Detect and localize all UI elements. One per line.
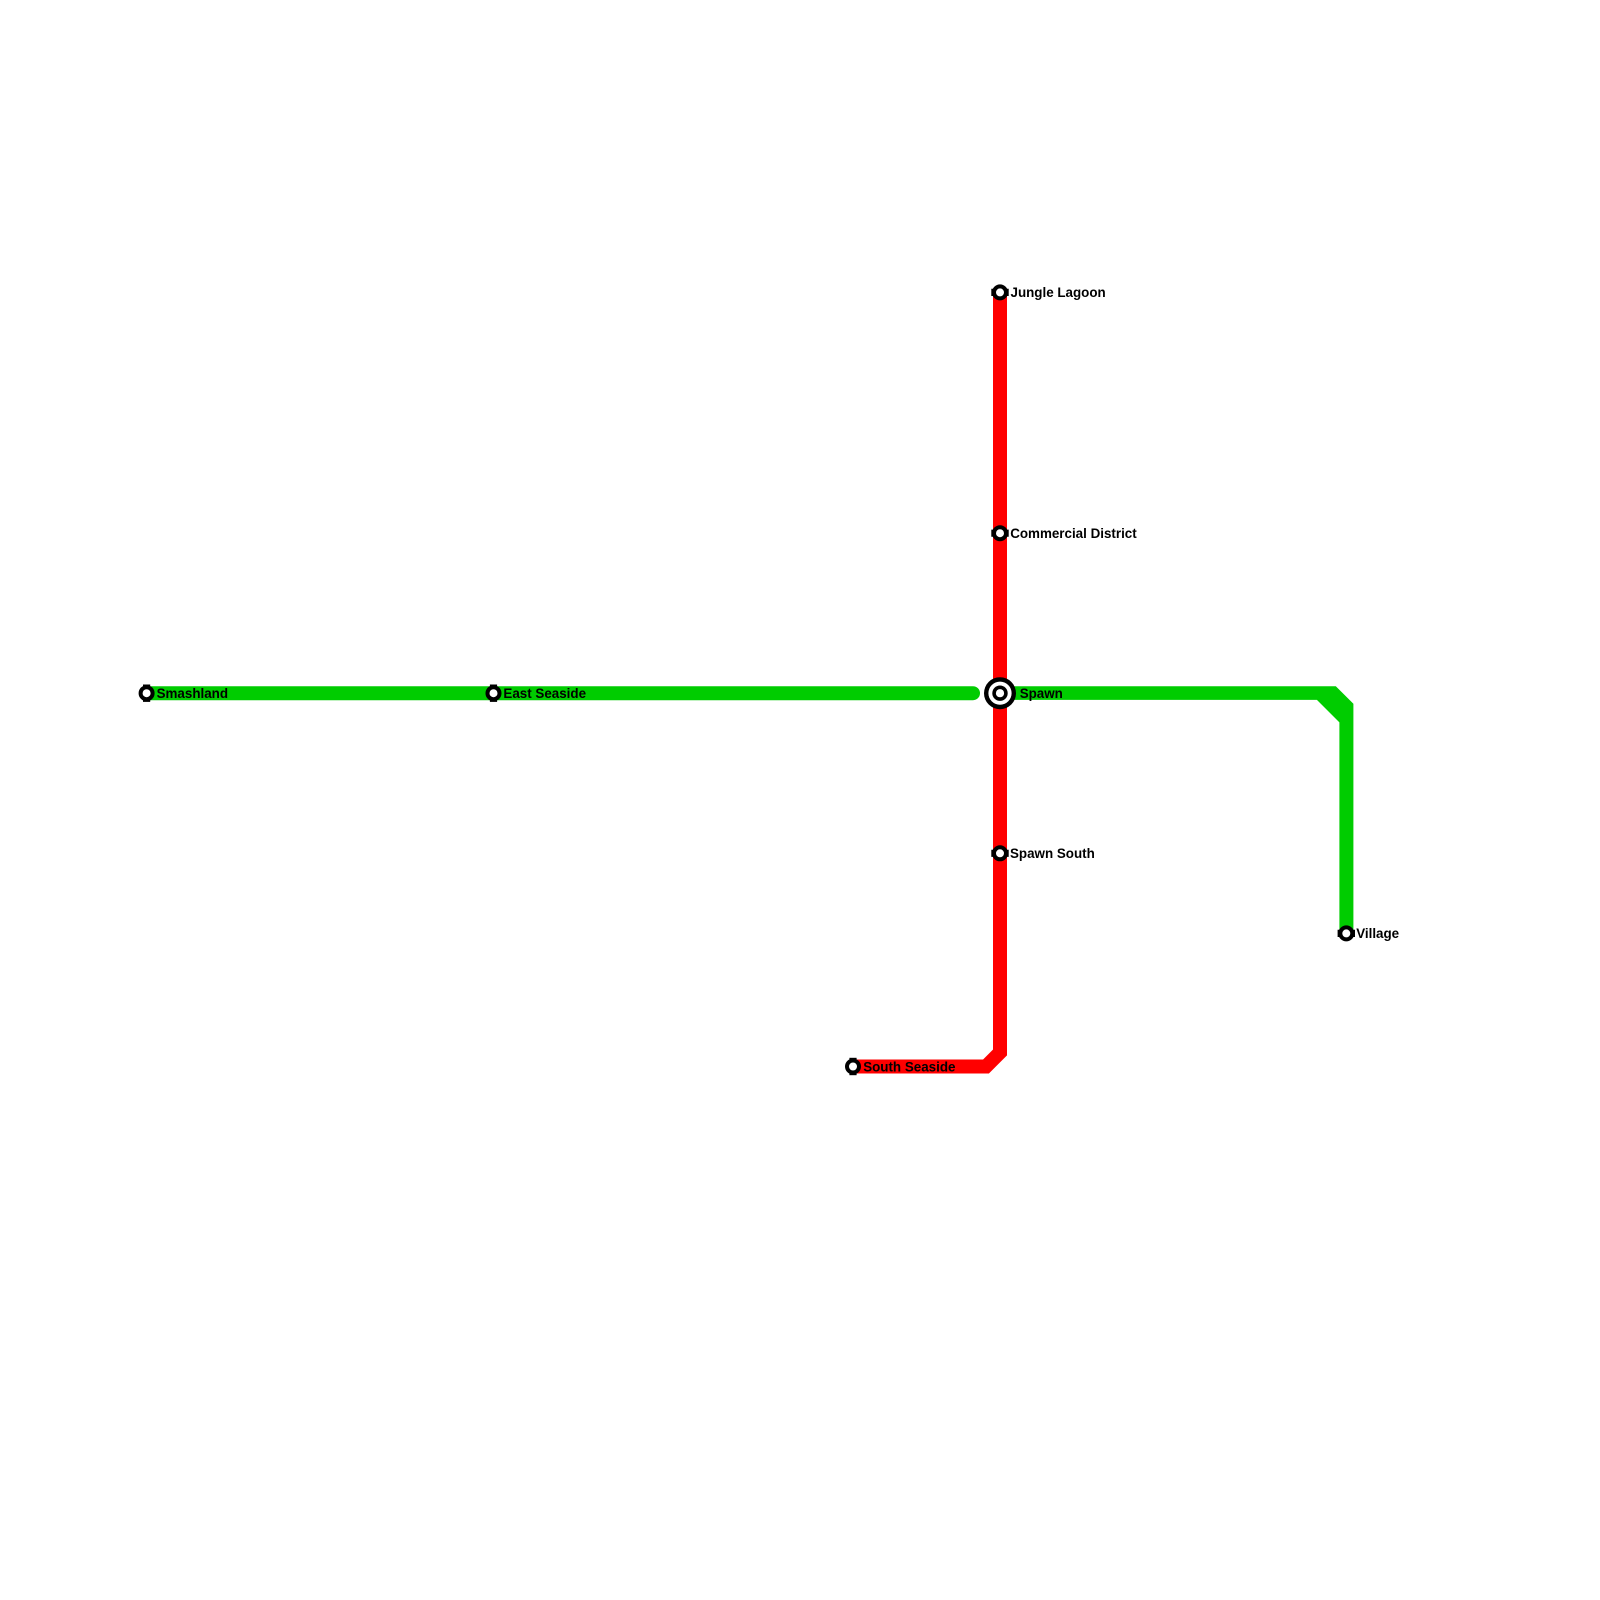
station Commercial District: [991, 527, 1008, 539]
station Spawn South: [991, 847, 1008, 859]
svg-text:Village: Village: [1356, 926, 1399, 941]
svg-text:Spawn: Spawn: [1020, 686, 1063, 701]
svg-text:South Seaside: South Seaside: [863, 1059, 955, 1074]
green line east segment (Spawn to bend to Village): [1000, 686, 1353, 933]
red line (Jungle Lagoon to bend to South Seaside): [853, 292, 1000, 1066]
station Village: [1338, 927, 1355, 939]
station South Seaside: [847, 1058, 859, 1075]
station Smashland: [141, 685, 153, 702]
station Jungle Lagoon: [991, 286, 1008, 298]
svg-text:Jungle Lagoon: Jungle Lagoon: [1011, 285, 1106, 300]
svg-text:Spawn South: Spawn South: [1010, 846, 1095, 861]
svg-text:Smashland: Smashland: [157, 686, 228, 701]
svg-text:East Seaside: East Seaside: [503, 686, 586, 701]
green line west segment (Smashland to East Seaside to near Spawn): [147, 686, 973, 700]
interchange station Spawn (bullseye): [984, 677, 1016, 709]
station East Seaside: [488, 685, 500, 702]
svg-text:Commercial District: Commercial District: [1010, 526, 1137, 541]
